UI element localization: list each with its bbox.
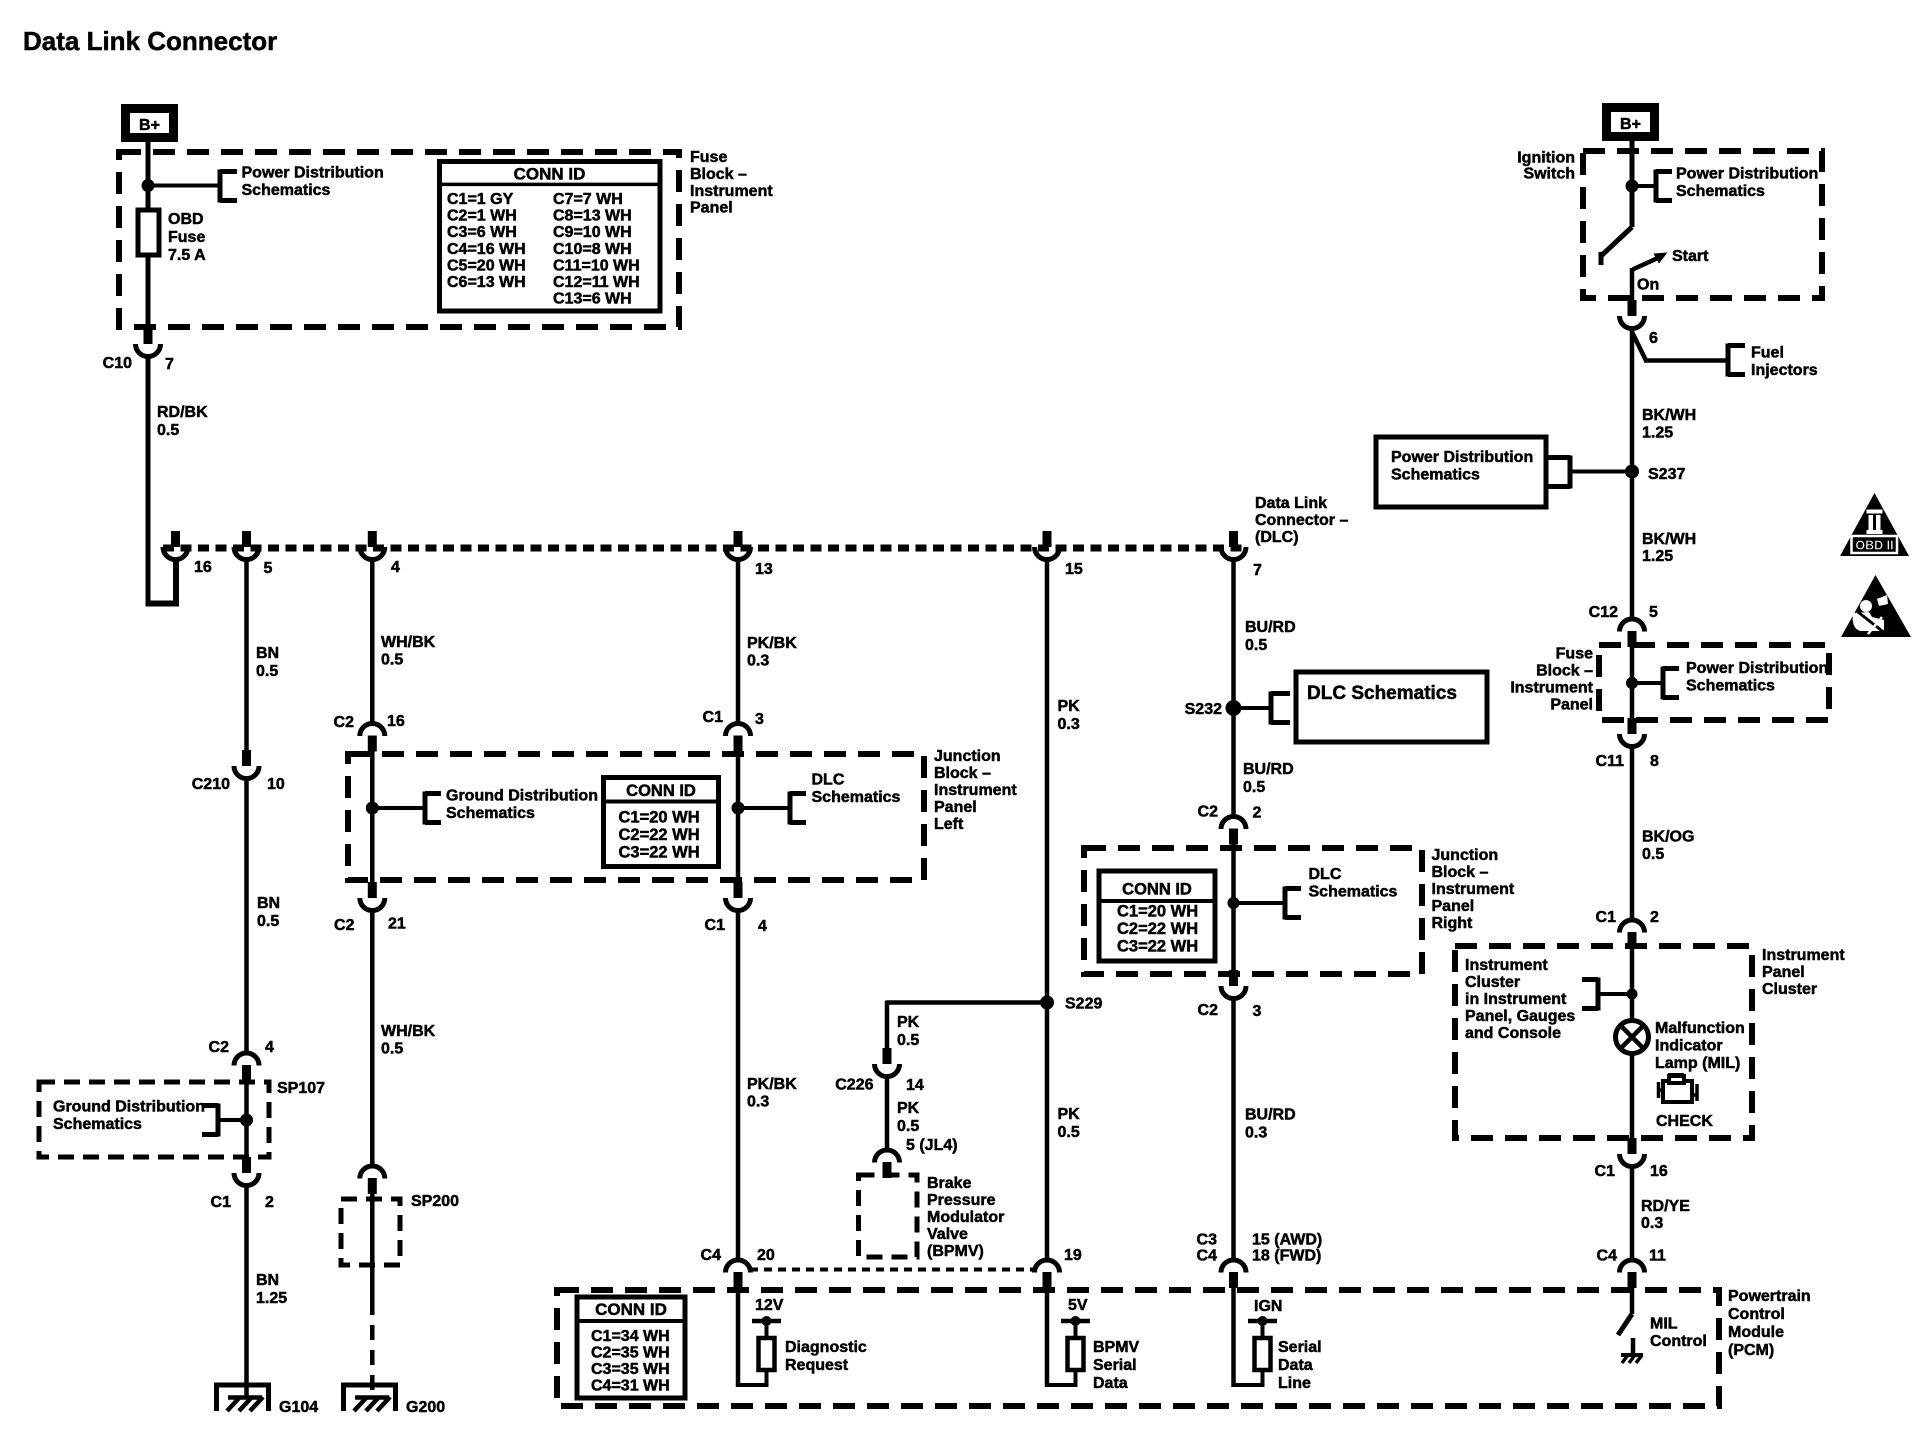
- svg-text:PK: PK: [897, 1100, 920, 1117]
- label: OBD Fuse 7.5 A: [168, 211, 206, 264]
- wire: through SP107: [244, 1081, 249, 1157]
- svg-text:Fuse: Fuse: [690, 149, 727, 166]
- svg-text:6: 6: [1649, 330, 1658, 347]
- label: C2 / 3: [1198, 1002, 1262, 1020]
- label: C4 / 11: [1597, 1248, 1666, 1265]
- wire: branch to DLC schematics bracket (JB right): [1234, 901, 1286, 905]
- svg-text:C1: C1: [1596, 909, 1617, 926]
- svg-text:C11: C11: [1596, 753, 1625, 770]
- wire: SP107 branch to bracket: [218, 1118, 247, 1122]
- svg-text:C5=20 WH: C5=20 WH: [447, 257, 526, 274]
- svg-text:Indicator: Indicator: [1655, 1038, 1723, 1055]
- svg-text:Data Link: Data Link: [1255, 495, 1327, 512]
- label: C10 / 7: [103, 355, 174, 373]
- svg-text:C11=10 WH: C11=10 WH: [553, 257, 640, 274]
- svg-text:(BPMV): (BPMV): [927, 1243, 984, 1260]
- svg-text:4: 4: [265, 1039, 274, 1056]
- svg-text:14: 14: [906, 1077, 924, 1094]
- svg-text:0.5: 0.5: [257, 913, 279, 930]
- connector C4 pin 20 (PCM): [726, 1260, 751, 1288]
- svg-text:G200: G200: [406, 1399, 445, 1416]
- svg-text:Fuel: Fuel: [1751, 345, 1784, 362]
- ground: MIL control internal: [1621, 1355, 1643, 1363]
- svg-text:Request: Request: [785, 1357, 849, 1374]
- splice pack SP107 dashed box: [39, 1082, 269, 1157]
- svg-text:Fuse: Fuse: [1556, 646, 1593, 663]
- svg-text:Power Distribution: Power Distribution: [1676, 166, 1818, 183]
- connector C2 pin 4 (splice pack feed): [234, 1053, 259, 1081]
- svg-text:C2=22 WH: C2=22 WH: [619, 826, 700, 844]
- svg-text:C2: C2: [334, 714, 355, 731]
- svg-text:(PCM): (PCM): [1728, 1342, 1774, 1359]
- bracket: instrument cluster pointer: [1582, 978, 1598, 1011]
- svg-text:Panel: Panel: [934, 799, 977, 816]
- svg-text:Instrument: Instrument: [934, 782, 1017, 799]
- node: splice S237: [1625, 465, 1639, 479]
- svg-text:Block –: Block –: [934, 765, 991, 782]
- label: DLC Schematics (JB right): [1309, 866, 1398, 901]
- svg-text:IGN: IGN: [1254, 1298, 1282, 1315]
- brake pressure modulator valve dashed box: [859, 1175, 918, 1257]
- connector C1 pin 4: [726, 882, 751, 911]
- fuse block - instrument panel dashed box (right): [1599, 645, 1829, 720]
- node: junction at cluster bracket: [1627, 989, 1638, 1000]
- svg-text:5 (JL4): 5 (JL4): [906, 1137, 958, 1154]
- svg-text:Serial: Serial: [1093, 1357, 1137, 1374]
- wire: branch to power distribution bracket (fuse block right): [1632, 681, 1663, 685]
- svg-text:0.5: 0.5: [1058, 1124, 1080, 1141]
- label: BN 1.25: [256, 1272, 287, 1307]
- svg-text:10: 10: [267, 776, 285, 793]
- svg-text:Left: Left: [934, 816, 964, 833]
- svg-text:OBD: OBD: [168, 211, 204, 228]
- wire: PCM connector face (dotted): [750, 1268, 1035, 1272]
- wire: WH/BK from pin 4: [370, 559, 375, 724]
- svg-text:CONN ID: CONN ID: [514, 165, 586, 184]
- svg-text:C4=31 WH: C4=31 WH: [591, 1378, 670, 1395]
- svg-text:0.5: 0.5: [1642, 846, 1664, 863]
- svg-text:MIL: MIL: [1650, 1316, 1678, 1333]
- svg-text:and Console: and Console: [1465, 1025, 1561, 1042]
- svg-text:Ignition: Ignition: [1517, 150, 1575, 167]
- svg-text:C7=7 WH: C7=7 WH: [553, 191, 623, 208]
- wire: branch to DLC schematics bracket: [738, 806, 790, 810]
- label: Junction Block - Instrument Panel Left: [934, 748, 1017, 833]
- svg-text:C12: C12: [1589, 604, 1618, 621]
- fuse: OBD Fuse 7.5 A: [138, 210, 159, 255]
- svg-text:C3=22 WH: C3=22 WH: [1117, 938, 1198, 956]
- svg-text:18 (FWD): 18 (FWD): [1252, 1248, 1321, 1265]
- switch: MIL control: [1618, 1288, 1633, 1355]
- svg-text:Injectors: Injectors: [1751, 362, 1818, 379]
- svg-text:Cluster: Cluster: [1465, 974, 1520, 991]
- wire: dashed lead to G200: [370, 1300, 375, 1397]
- bracket: fuel injectors pointer: [1728, 344, 1745, 377]
- wire: PK/BK to PCM pin 20: [736, 910, 741, 1260]
- svg-text:S237: S237: [1648, 466, 1685, 483]
- label: C1 / 2 (cluster): [1596, 909, 1659, 926]
- label: C1 / 16: [1595, 1163, 1668, 1180]
- svg-text:PK: PK: [897, 1014, 920, 1031]
- svg-text:Junction: Junction: [934, 748, 1001, 765]
- svg-text:0.5: 0.5: [1245, 637, 1267, 654]
- svg-text:PK/BK: PK/BK: [747, 635, 797, 652]
- label: C11 / 8: [1596, 753, 1659, 770]
- symbol: SRS caution triangle: [1841, 575, 1911, 637]
- connector C226 pin 14: [875, 1048, 900, 1077]
- svg-text:2: 2: [265, 1194, 274, 1211]
- svg-text:Data: Data: [1093, 1375, 1128, 1392]
- label: PK 0.5 (branch): [897, 1014, 920, 1049]
- wire: branch to ground distribution bracket: [372, 806, 425, 810]
- symbol: OBD II triangle: [1840, 493, 1909, 556]
- svg-text:0.5: 0.5: [157, 422, 179, 439]
- svg-text:Power Distribution: Power Distribution: [242, 165, 384, 182]
- node: junction on ignition feed: [1626, 180, 1639, 193]
- svg-text:Switch: Switch: [1523, 166, 1575, 183]
- svg-text:CONN ID: CONN ID: [1122, 881, 1192, 899]
- wire: BN to C2: [244, 778, 249, 1053]
- svg-text:DLC Schematics: DLC Schematics: [1307, 683, 1457, 704]
- wire: DLC connector bus (dashed): [163, 545, 1246, 552]
- svg-text:Control: Control: [1650, 1333, 1707, 1350]
- ignition switch dashed box: [1583, 151, 1822, 298]
- label: WH/BK 0.5: [381, 634, 436, 669]
- svg-text:5V: 5V: [1068, 1297, 1088, 1314]
- wire: BN 1.25 to G104: [244, 1185, 249, 1398]
- svg-text:15: 15: [1065, 561, 1083, 578]
- svg-text:BU/RD: BU/RD: [1245, 619, 1296, 636]
- wire: switch output: [1630, 268, 1635, 301]
- svg-text:5: 5: [1649, 604, 1658, 621]
- svg-text:C10=8 WH: C10=8 WH: [553, 241, 632, 258]
- svg-text:Schematics: Schematics: [1391, 467, 1480, 484]
- label: Fuse Block - Instrument Panel (right): [1510, 646, 1593, 714]
- svg-text:C3=35 WH: C3=35 WH: [591, 1361, 670, 1378]
- label: C2 / 21: [334, 916, 406, 935]
- label: Power Distribution Schematics (fuse block right): [1686, 660, 1828, 695]
- svg-text:Diagnostic: Diagnostic: [785, 1339, 867, 1356]
- svg-text:0.3: 0.3: [1641, 1215, 1663, 1232]
- wire: S232 branch to DLC schematics box: [1234, 706, 1272, 710]
- label: PK 0.5 (to BPMV): [897, 1100, 920, 1135]
- svg-text:C8=13 WH: C8=13 WH: [553, 208, 632, 225]
- svg-text:5: 5: [264, 560, 273, 577]
- svg-text:C226: C226: [835, 1077, 873, 1094]
- svg-text:7: 7: [165, 356, 174, 373]
- wire: BK/WH to S237: [1630, 329, 1635, 620]
- svg-text:11: 11: [1649, 1248, 1666, 1265]
- svg-text:C2=22 WH: C2=22 WH: [1117, 920, 1198, 938]
- node: splice S232: [1226, 700, 1242, 716]
- svg-text:C2=1 WH: C2=1 WH: [447, 208, 517, 225]
- label: C2 / 16: [334, 713, 405, 731]
- svg-text:3: 3: [755, 711, 764, 728]
- svg-text:Schematics: Schematics: [1686, 678, 1775, 695]
- fuse block - instrument panel dashed box (left): [119, 152, 679, 327]
- connector DLC pin 5: [234, 531, 259, 560]
- svg-text:C3=6 WH: C3=6 WH: [447, 224, 517, 241]
- bracket: power distribution pointer (fuse block right): [1663, 667, 1679, 700]
- wire: elbow up to DLC pin 16: [146, 559, 180, 606]
- label: Fuse Block - Instrument Panel: [690, 149, 773, 217]
- node: splice S229: [1040, 996, 1054, 1010]
- splice pack SP200 dashed box: [341, 1199, 400, 1265]
- label: Diagnostic Request: [785, 1339, 867, 1374]
- svg-text:WH/BK: WH/BK: [381, 634, 436, 651]
- svg-text:BU/RD: BU/RD: [1245, 1107, 1296, 1124]
- connector C3/C4 pins 15/18 (PCM): [1221, 1260, 1246, 1288]
- node: junction on C2 wire: [366, 802, 379, 815]
- battery terminal B+ (left): [126, 109, 174, 138]
- svg-text:Control: Control: [1728, 1306, 1785, 1323]
- svg-text:12V: 12V: [755, 1297, 784, 1314]
- connector C4 pin 11 (PCM): [1620, 1260, 1645, 1288]
- svg-text:0.5: 0.5: [256, 663, 278, 680]
- wire: WH/BK to SP200: [370, 910, 375, 1166]
- label: Instrument Panel Cluster: [1762, 947, 1845, 998]
- svg-text:Data Link Connector: Data Link Connector: [23, 26, 277, 56]
- wire: PK to BPMV: [885, 1076, 890, 1150]
- svg-text:0.3: 0.3: [747, 653, 769, 670]
- svg-text:C10: C10: [103, 355, 132, 372]
- svg-text:CHECK: CHECK: [1656, 1113, 1713, 1130]
- svg-text:Schematics: Schematics: [446, 805, 535, 822]
- svg-text:Instrument: Instrument: [1762, 947, 1845, 964]
- svg-text:Lamp (MIL): Lamp (MIL): [1655, 1055, 1740, 1072]
- connector C2 pin 16 (junction block left): [360, 724, 385, 752]
- wire: BN from pin 5: [244, 559, 249, 750]
- wire: branch to power distribution bracket (ignition): [1632, 184, 1656, 188]
- label: PK 0.3: [1058, 698, 1081, 733]
- pin terminal: 5V BPMV serial data: [1047, 1288, 1090, 1387]
- bracket: pointer from PDS box to S237: [1546, 456, 1626, 489]
- wire: BK/OG to instrument cluster: [1630, 746, 1635, 920]
- svg-text:2: 2: [1650, 909, 1659, 926]
- label: DLC Schematics (JB left): [812, 772, 901, 807]
- node: SP107 junction: [240, 1114, 253, 1127]
- connector pin 19 (PCM): [1035, 1260, 1060, 1288]
- svg-text:C12=11 WH: C12=11 WH: [553, 274, 640, 291]
- bracket: DLC schematics pointer (JB left): [790, 792, 806, 825]
- label: Fuel Injectors: [1751, 345, 1818, 380]
- svg-text:BN: BN: [256, 1272, 279, 1289]
- svg-text:BK/OG: BK/OG: [1642, 829, 1694, 846]
- svg-text:Block –: Block –: [1536, 663, 1593, 680]
- svg-text:C1=34 WH: C1=34 WH: [591, 1328, 670, 1345]
- svg-text:Block –: Block –: [1432, 864, 1489, 881]
- label: C1 / 2: [211, 1194, 274, 1211]
- box: DLC Schematics (solid): [1296, 672, 1487, 742]
- svg-text:CONN ID: CONN ID: [595, 1300, 667, 1319]
- label: Instrument Cluster in Instrument Panel, Gauges and Console: [1465, 957, 1575, 1042]
- svg-text:Valve: Valve: [927, 1226, 968, 1243]
- svg-text:Pressure: Pressure: [927, 1192, 996, 1209]
- label: C12 / 5: [1589, 604, 1658, 621]
- connector into BPMV: [875, 1150, 900, 1178]
- wire: branch to cluster bracket: [1598, 992, 1632, 996]
- label: Brake Pressure Modulator Valve (BPMV): [927, 1175, 1004, 1260]
- svg-text:1.25: 1.25: [1642, 425, 1673, 442]
- svg-text:RD/BK: RD/BK: [157, 404, 208, 421]
- svg-text:S232: S232: [1185, 701, 1222, 718]
- svg-text:BU/RD: BU/RD: [1243, 761, 1294, 778]
- connector DLC pin 4: [360, 531, 385, 560]
- label: MIL Control: [1650, 1316, 1707, 1351]
- svg-text:C210: C210: [192, 776, 230, 793]
- node: junction on B+ feed: [142, 179, 155, 192]
- svg-text:Connector –: Connector –: [1255, 512, 1348, 529]
- svg-text:B+: B+: [139, 117, 160, 134]
- wire: B+ to fuse: [146, 142, 151, 210]
- label: C3 C4 / 15 (AWD) 18 (FWD): [1197, 1232, 1323, 1265]
- label: Power Distribution Schematics (ignition): [1676, 166, 1818, 201]
- svg-text:1.25: 1.25: [1642, 548, 1673, 565]
- pin terminal: 12V diagnostic request: [738, 1288, 784, 1387]
- svg-text:Panel: Panel: [1550, 697, 1593, 714]
- wire: PK from pin 15 to S229: [1045, 559, 1050, 1260]
- svg-text:Schematics: Schematics: [812, 789, 901, 806]
- wire: C1 through junction block left: [736, 751, 741, 884]
- label: Powertrain Control Module (PCM): [1728, 1288, 1811, 1359]
- svg-text:CONN ID: CONN ID: [626, 782, 696, 800]
- svg-text:4: 4: [758, 918, 767, 935]
- svg-text:Instrument: Instrument: [1510, 680, 1593, 697]
- svg-text:G104: G104: [279, 1399, 318, 1416]
- bracket: ground distribution pointer (SP107): [202, 1104, 218, 1137]
- connector C2 pin 2 (junction block right): [1221, 817, 1246, 845]
- svg-text:C2: C2: [1198, 804, 1219, 821]
- wire: RD/BK down from C10: [146, 357, 151, 604]
- svg-text:Schematics: Schematics: [1676, 183, 1765, 200]
- svg-text:C1: C1: [1595, 1163, 1616, 1180]
- svg-text:Ground Distribution: Ground Distribution: [446, 788, 598, 805]
- connector C210 pin 10: [234, 750, 259, 779]
- svg-text:Panel: Panel: [690, 200, 733, 217]
- bracket: power distribution schematics pointer: [220, 170, 237, 203]
- connector C1 pin 2: [234, 1157, 259, 1186]
- svg-text:0.5: 0.5: [381, 1041, 403, 1058]
- connector into SP200: [360, 1166, 385, 1194]
- label: BK/WH 1.25 (second): [1642, 531, 1696, 565]
- svg-text:8: 8: [1650, 753, 1659, 770]
- connector C2 pin 3: [1221, 970, 1246, 999]
- svg-text:C1=1 GY: C1=1 GY: [447, 191, 514, 208]
- connector DLC pin 13: [726, 531, 751, 560]
- svg-text:0.5: 0.5: [381, 652, 403, 669]
- svg-text:BK/WH: BK/WH: [1642, 531, 1696, 548]
- svg-text:C4=16 WH: C4=16 WH: [447, 241, 526, 258]
- svg-text:0.5: 0.5: [1243, 779, 1265, 796]
- svg-text:DLC: DLC: [1309, 866, 1342, 883]
- ground G200: [341, 1383, 398, 1411]
- svg-text:C3=22 WH: C3=22 WH: [619, 844, 700, 862]
- label: C2 / 4: [209, 1039, 274, 1056]
- svg-text:C1: C1: [703, 709, 724, 726]
- label: C226 / 14: [835, 1077, 924, 1095]
- svg-text:7: 7: [1253, 562, 1262, 579]
- instrument cluster dashed box: [1455, 946, 1752, 1138]
- wire: through fuse block right: [1630, 647, 1635, 718]
- svg-text:B+: B+: [1620, 116, 1641, 133]
- connector C12 pin 5: [1620, 619, 1645, 647]
- svg-text:PK: PK: [1058, 1106, 1081, 1123]
- svg-text:Power Distribution: Power Distribution: [1686, 660, 1828, 677]
- icon: check engine: [1657, 1075, 1697, 1103]
- svg-text:Brake: Brake: [927, 1175, 972, 1192]
- svg-text:C2: C2: [1198, 1002, 1219, 1019]
- svg-text:1.25: 1.25: [256, 1290, 287, 1307]
- label: RD/BK 0.5: [157, 404, 208, 439]
- connector DLC pin 7: [1221, 531, 1246, 560]
- svg-text:RD/YE: RD/YE: [1641, 1198, 1690, 1215]
- label: Ignition Switch: [1517, 150, 1575, 183]
- svg-text:0.3: 0.3: [1058, 716, 1080, 733]
- svg-text:BK/WH: BK/WH: [1642, 407, 1696, 424]
- powertrain control module dashed box: [557, 1290, 1719, 1406]
- switch: ignition blade: [1601, 227, 1632, 265]
- node: junction on C1 wire: [732, 802, 745, 815]
- svg-text:Panel, Gauges: Panel, Gauges: [1465, 1008, 1575, 1025]
- label: C210 / 10: [192, 776, 285, 793]
- svg-text:BPMV: BPMV: [1093, 1339, 1140, 1356]
- label: BPMV Serial Data: [1093, 1339, 1140, 1392]
- svg-text:Schematics: Schematics: [1309, 884, 1398, 901]
- svg-text:OBD II: OBD II: [1855, 539, 1893, 553]
- label: WH/BK 0.5 (second): [381, 1023, 436, 1058]
- svg-text:Malfunction: Malfunction: [1655, 1020, 1745, 1037]
- label: PK/BK 0.3 (second): [747, 1076, 797, 1111]
- svg-text:Line: Line: [1278, 1375, 1311, 1392]
- svg-text:SP107: SP107: [277, 1080, 325, 1097]
- svg-text:C4: C4: [1197, 1248, 1218, 1265]
- label: BU/RD 0.5 (second): [1243, 761, 1294, 796]
- svg-text:Data: Data: [1278, 1357, 1313, 1374]
- lamp: malfunction indicator lamp (MIL): [1616, 1021, 1649, 1054]
- svg-text:16: 16: [387, 713, 405, 730]
- svg-text:3: 3: [1253, 1003, 1262, 1020]
- svg-text:C4: C4: [1597, 1248, 1618, 1265]
- svg-text:PK: PK: [1058, 698, 1081, 715]
- label: Power Distribution Schematics: [242, 165, 384, 200]
- svg-text:Panel: Panel: [1432, 898, 1475, 915]
- svg-text:C1: C1: [211, 1194, 232, 1211]
- label: BU/RD 0.5: [1245, 619, 1296, 654]
- svg-text:C2=35 WH: C2=35 WH: [591, 1345, 670, 1362]
- connector DLC pin 16: [163, 531, 188, 560]
- svg-text:Instrument: Instrument: [1432, 881, 1515, 898]
- svg-text:Powertrain: Powertrain: [1728, 1288, 1811, 1305]
- svg-text:0.5: 0.5: [897, 1032, 919, 1049]
- label: C1 / 4: [705, 917, 767, 935]
- wire: RD/YE to PCM pin 11: [1630, 1166, 1635, 1260]
- wire: S229 branch to BPMV: [887, 1001, 1047, 1049]
- svg-text:15 (AWD): 15 (AWD): [1252, 1232, 1322, 1249]
- svg-text:C13=6 WH: C13=6 WH: [553, 291, 632, 308]
- svg-text:Serial: Serial: [1278, 1339, 1322, 1356]
- svg-text:Instrument: Instrument: [690, 183, 773, 200]
- svg-text:7.5 A: 7.5 A: [168, 247, 206, 264]
- label: Ground Distribution Schematics (SP107): [53, 1099, 205, 1134]
- junction block - instrument panel right dashed box: [1084, 848, 1422, 974]
- svg-text:Panel: Panel: [1762, 964, 1805, 981]
- label: C4 / 20: [701, 1247, 775, 1264]
- label: BK/WH 1.25: [1642, 407, 1696, 442]
- svg-text:C9=10 WH: C9=10 WH: [553, 224, 632, 241]
- svg-text:0.3: 0.3: [747, 1094, 769, 1111]
- svg-text:BN: BN: [256, 645, 279, 662]
- wire: through SP200: [370, 1194, 375, 1300]
